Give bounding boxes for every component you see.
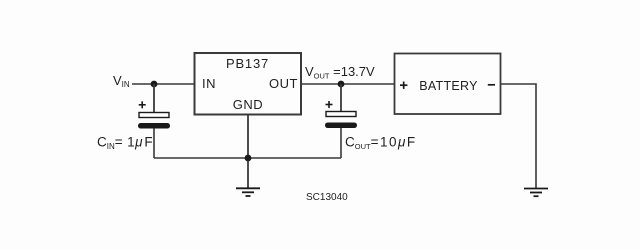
capacitor C1 CIN lower lead wire: [153, 129, 155, 159]
plus sign for CIN: [139, 101, 146, 108]
ground symbol middle: [236, 188, 260, 196]
svg-text:BATTERY: BATTERY: [419, 79, 478, 93]
wire battery minus to right ground: [501, 84, 537, 188]
battery plus terminal sign: [400, 82, 407, 89]
bottom bus wire: [154, 157, 341, 159]
capacitor C2 COUT top plate: [326, 112, 356, 117]
junction dot at VIN node: [151, 81, 158, 88]
capacitor C2 COUT bottom plate: [325, 123, 357, 129]
ground symbol right: [524, 189, 548, 197]
svg-text:SC13040: SC13040: [306, 192, 348, 203]
junction dot at VOUT node: [338, 81, 345, 88]
battery B1 box: [395, 54, 501, 115]
regulator U1 PB137 box: [195, 53, 302, 115]
capacitor C1 CIN upper lead wire: [153, 84, 155, 113]
svg-text:IN: IN: [202, 76, 216, 91]
wire VIN to IN: [132, 83, 195, 85]
capacitor C2 COUT lower lead wire: [340, 128, 342, 158]
wire OUT to battery plus: [301, 83, 395, 85]
plus sign for COUT: [326, 101, 333, 108]
svg-text:GND: GND: [233, 97, 263, 112]
battery minus terminal sign: [488, 84, 495, 86]
svg-text:CIN= 1μ F: CIN= 1μ F: [97, 135, 153, 151]
wire GND pin down through bus to ground: [247, 115, 249, 189]
svg-text:PB137: PB137: [226, 56, 269, 71]
junction dot on bus at GND: [245, 155, 252, 162]
capacitor C1 CIN bottom plate: [138, 123, 170, 129]
svg-text:OUT: OUT: [269, 76, 298, 91]
capacitor C1 CIN top plate: [139, 113, 169, 118]
capacitor C2 COUT upper lead wire: [340, 84, 342, 112]
